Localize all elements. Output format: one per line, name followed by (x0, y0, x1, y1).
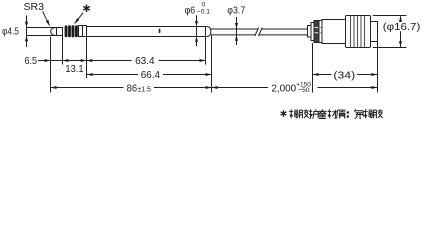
svg-text:13.1: 13.1 (65, 63, 83, 75)
cable right segment (259, 29, 308, 35)
dim row: (34) (313, 74, 319, 76)
dim phi16.7 extension lines (373, 15, 407, 17)
dim phi6 vertical line with arrows (196, 15, 198, 46)
extension line probe tip front x=50.5 (50, 37, 52, 93)
dim row3: 86 +-1.5 (51, 87, 57, 89)
probe tip (SR3 rounded end, phi4.5 section) (51, 28, 63, 36)
collar after bellows (79, 26, 87, 37)
dim phi16.7 vertical line with arrows (400, 16, 402, 22)
shaft end cap (206, 27, 211, 37)
asterisk symbol top (83, 5, 89, 13)
svg-text:−50: −50 (298, 87, 310, 94)
connector band D (319, 21, 322, 43)
svg-text:φ3.7: φ3.7 (227, 4, 245, 16)
asterisk leader (75, 13, 84, 24)
SR3 leader (43, 11, 50, 25)
dim phi3.7 vertical line with arrows (236, 17, 238, 45)
svg-text:SR3: SR3 (24, 1, 45, 13)
dim row3: 2000 (212, 87, 218, 89)
footnote glyph: jiao2 (373, 109, 382, 118)
dim phi4.5 extension lines (27, 27, 57, 29)
connector end cap (371, 22, 378, 42)
extension line cap/cable x=211.5 (211, 36, 213, 93)
footnote glyph: hu (309, 109, 319, 118)
shaft phi6 (87, 27, 206, 37)
footnote glyph: fu (354, 109, 364, 118)
cable left segment (211, 29, 259, 35)
svg-text:φ6: φ6 (185, 5, 196, 17)
footnote glyph: jiao (299, 109, 308, 118)
footnote glyph: cai (328, 109, 338, 118)
cable break marks (255, 28, 259, 36)
mark on shaft (159, 29, 161, 33)
svg-text:66.4: 66.4 (141, 69, 160, 81)
svg-text:63.4: 63.4 (135, 55, 155, 67)
extension line connector front x=312.5 (312, 43, 314, 93)
extension line collar/shaft x=86.5 (86, 26, 88, 79)
dim row1: 13.1 left arrow (63, 60, 69, 62)
footnote chinese glyph: xiang (rubber tree) (289, 109, 382, 118)
dim row1: 63.4 right part with arrow (159, 60, 206, 62)
svg-text:(34): (34) (333, 69, 355, 81)
dim row2: 66.4 (87, 74, 93, 76)
footnote glyph: xiang2 (364, 109, 373, 118)
connector knurled ring phi16.7 (346, 16, 371, 48)
svg-text:(φ16.7): (φ16.7) (383, 21, 421, 33)
dim row1: line through 13.1 span and 63.4 left part (51, 60, 132, 62)
connector body (322, 20, 346, 44)
connector collar B (311, 23, 314, 41)
connector cable bushing collar A (308, 26, 312, 38)
footnote glyph: zhi (337, 110, 346, 119)
svg-text:86: 86 (127, 83, 138, 95)
svg-text:6.5: 6.5 (25, 55, 38, 67)
svg-text:2,000: 2,000 (271, 82, 296, 94)
tip cap line (56, 28, 58, 36)
extension line shaft end x=205.5 (205, 27, 207, 65)
svg-text:φ4.5: φ4.5 (2, 25, 19, 37)
footnote colon (347, 112, 348, 117)
connector dark band (314, 21, 319, 43)
footnote asterisk (281, 110, 287, 117)
svg-text:±1.5: ±1.5 (137, 84, 151, 93)
extension line tip end x=62.5 (62, 28, 64, 65)
footnote glyph: tao (318, 109, 327, 118)
extension line connector end x=377.5 (377, 42, 379, 93)
bellows (rubber boot, asterisk part) (65, 25, 78, 37)
dim row1: arrows meeting at x=86.5 (80, 60, 86, 62)
dim phi4.5 vertical line with arrows (26, 16, 28, 48)
dim row1: 6.5 leader with arrow (38, 60, 50, 62)
svg-text:−0.1: −0.1 (197, 8, 210, 15)
